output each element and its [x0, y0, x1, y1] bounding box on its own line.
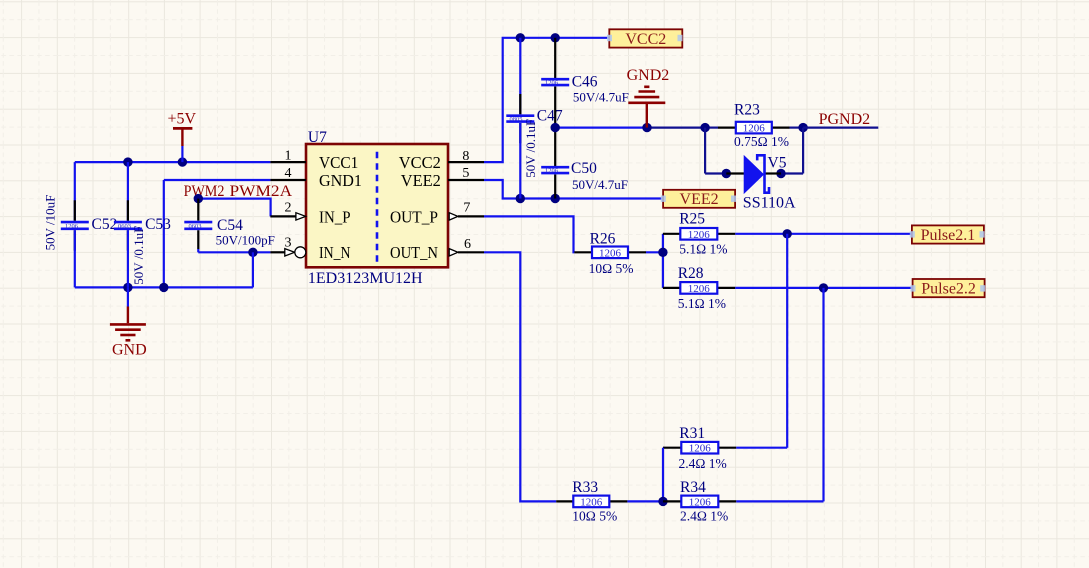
wire VEE2 net from pin 5 down to bottom rail — [484, 180, 663, 203]
capacitor C54 — [184, 199, 275, 253]
wire bottom GND bus — [75, 283, 253, 292]
capacitor C53 — [114, 162, 171, 287]
wire OUT_N net pin 6 down to R33 row — [484, 252, 556, 501]
resistor R26 — [574, 230, 663, 275]
port VEE2 — [663, 190, 735, 208]
svg-text:5: 5 — [462, 166, 469, 181]
svg-text:0805: 0805 — [510, 116, 523, 123]
svg-text:1206: 1206 — [689, 496, 712, 508]
resistor R28 — [663, 265, 735, 311]
wire riser joining R26 R25 R28 — [658, 234, 667, 288]
svg-text:Pulse2.1: Pulse2.1 — [921, 227, 976, 244]
svg-text:1ED3123MU12H: 1ED3123MU12H — [308, 270, 423, 287]
svg-text:0.75Ω 1%: 0.75Ω 1% — [734, 134, 789, 149]
wire PGND2 to the right — [803, 126, 878, 128]
svg-text:C46: C46 — [572, 73, 598, 90]
capacitor C50 — [541, 128, 628, 199]
wire diode branch right vertical — [802, 128, 804, 174]
svg-text:50V /0.1uF: 50V /0.1uF — [523, 119, 538, 178]
ground GND2 power ground — [627, 67, 670, 128]
svg-text:1206: 1206 — [599, 247, 622, 259]
svg-text:C52: C52 — [92, 216, 118, 233]
svg-text:C54: C54 — [217, 217, 243, 234]
svg-text:+5V: +5V — [168, 110, 197, 127]
resistor R33 — [556, 479, 663, 524]
svg-text:R25: R25 — [679, 210, 705, 227]
svg-text:R33: R33 — [572, 479, 598, 496]
svg-text:50V/4.7uF: 50V/4.7uF — [572, 177, 628, 192]
svg-text:50V /10uF: 50V /10uF — [43, 195, 58, 251]
svg-text:1206: 1206 — [545, 80, 559, 87]
svg-text:3: 3 — [285, 236, 292, 251]
svg-text:50V /0.1uF: 50V /0.1uF — [131, 226, 146, 285]
wire GND1 vertical drop at x=163.8 — [163, 180, 165, 287]
capacitor C47 — [506, 38, 563, 199]
capacitor C52 — [43, 162, 118, 287]
svg-text:1206: 1206 — [65, 223, 79, 230]
svg-text:IN_N: IN_N — [319, 243, 351, 262]
wire diode row — [705, 169, 803, 178]
svg-text:PWM2A: PWM2A — [230, 183, 293, 200]
pin 2 IN_P — [270, 201, 350, 227]
svg-text:R28: R28 — [678, 265, 704, 282]
svg-text:1206: 1206 — [743, 123, 766, 135]
svg-text:10Ω 5%: 10Ω 5% — [572, 509, 617, 524]
svg-text:VEE2: VEE2 — [401, 171, 441, 190]
pin 8 VCC2 — [399, 149, 484, 172]
port VCC2 — [609, 29, 682, 48]
port Pulse2.2 — [913, 279, 985, 298]
svg-text:0603: 0603 — [118, 223, 131, 230]
svg-text:R23: R23 — [734, 101, 760, 118]
resistor R34 — [658, 479, 823, 524]
svg-text:5.1Ω 1%: 5.1Ω 1% — [679, 242, 727, 257]
svg-text:1206: 1206 — [689, 443, 712, 455]
wire Pulse2.2 net — [735, 283, 912, 292]
node hotspot marks on ports — [607, 35, 985, 292]
svg-text:6: 6 — [464, 237, 471, 252]
svg-text:1206: 1206 — [688, 229, 711, 241]
svg-text:GND1: GND1 — [319, 171, 362, 190]
svg-text:VEE2: VEE2 — [680, 191, 719, 208]
svg-text:Pulse2.2: Pulse2.2 — [921, 281, 976, 298]
wire IN_N net pin 3 row — [198, 248, 270, 288]
svg-text:C47: C47 — [537, 107, 563, 124]
svg-text:PWM2: PWM2 — [184, 183, 225, 200]
wire GND1 net pin 4 horizontal — [164, 179, 271, 181]
svg-text:IN_P: IN_P — [319, 207, 351, 226]
pin 4 GND1 — [270, 166, 362, 190]
wire riser Pulse2.2 to R34 — [822, 288, 824, 502]
op-amp U7 gate driver 1ED3123MU12H body — [306, 129, 448, 287]
pin 7 OUT_P — [390, 201, 484, 227]
svg-text:50V/100pF: 50V/100pF — [216, 233, 275, 248]
svg-text:SS110A: SS110A — [743, 194, 796, 211]
svg-text:V5: V5 — [768, 155, 787, 172]
svg-text:R34: R34 — [680, 479, 706, 496]
svg-text:R26: R26 — [590, 230, 616, 247]
pin 5 VEE2 — [401, 166, 484, 190]
svg-text:U7: U7 — [308, 129, 327, 146]
svg-text:R31: R31 — [679, 425, 705, 442]
power port +5V — [168, 110, 197, 162]
wire VCC2 net from pin 8 up to top rail — [484, 33, 609, 162]
svg-text:GND2: GND2 — [627, 67, 670, 84]
diode V5 SS110A schottky — [726, 155, 796, 212]
svg-text:7: 7 — [463, 201, 470, 216]
resistor R23 — [700, 101, 807, 148]
svg-text:2.4Ω 1%: 2.4Ω 1% — [680, 509, 728, 524]
svg-text:VCC1: VCC1 — [319, 153, 358, 172]
wire Pulse2.1 net — [735, 229, 912, 238]
svg-text:2.4Ω 1%: 2.4Ω 1% — [679, 456, 727, 471]
wire +5V/VCC1 net top-left horizontal to pin 1 — [75, 157, 271, 166]
svg-text:1206: 1206 — [688, 283, 711, 295]
ground GND — [110, 287, 147, 358]
svg-text:VCC2: VCC2 — [399, 153, 441, 172]
svg-text:GND: GND — [112, 342, 147, 359]
pin 1 VCC1 — [270, 149, 358, 173]
port Pulse2.1 — [912, 225, 984, 244]
resistor R25 — [663, 210, 735, 256]
pin 6 OUT_N — [390, 237, 484, 262]
svg-text:1: 1 — [285, 149, 292, 164]
svg-text:VCC2: VCC2 — [625, 31, 666, 48]
wire diode branch left vertical — [704, 128, 706, 174]
wire riser Pulse2.1 to R31 — [786, 234, 788, 448]
resistor R31 — [663, 425, 787, 502]
svg-text:OUT_P: OUT_P — [390, 207, 438, 226]
svg-text:C53: C53 — [145, 216, 171, 233]
svg-text:PGND2: PGND2 — [819, 111, 871, 128]
svg-text:50V/4.7uF: 50V/4.7uF — [573, 89, 629, 104]
svg-text:C50: C50 — [571, 160, 597, 177]
pin 3 IN_N — [270, 236, 350, 263]
svg-text:4: 4 — [285, 166, 292, 181]
svg-text:1206: 1206 — [580, 496, 603, 508]
svg-text:1206: 1206 — [545, 168, 559, 175]
wire PWM2A net to pin 2 — [194, 194, 271, 216]
capacitor C46 — [541, 38, 629, 128]
wire PGND2 bus middle rail — [551, 123, 706, 132]
svg-text:OUT_N: OUT_N — [390, 243, 438, 262]
svg-text:10Ω 5%: 10Ω 5% — [589, 261, 634, 276]
svg-text:0603: 0603 — [189, 223, 202, 230]
svg-text:5.1Ω 1%: 5.1Ω 1% — [678, 296, 726, 311]
svg-text:2: 2 — [285, 201, 292, 216]
svg-text:8: 8 — [462, 149, 469, 164]
wire OUT_P net pin 7 to R26 — [484, 216, 574, 252]
